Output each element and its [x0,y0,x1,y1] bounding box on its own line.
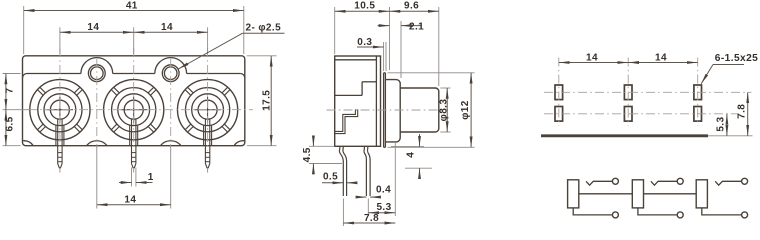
svg-text:4.5: 4.5 [302,147,313,162]
svg-text:0.4: 0.4 [376,185,391,196]
dimension 7 (top edge to hole center) [3,74,30,110]
jack J3: center cross [194,97,220,123]
RCA jack J1 front: concentric rings [30,80,90,140]
schematic jack 1: switch contact and tip terminal [586,178,618,185]
svg-text:5.3: 5.3 [716,117,727,132]
dimension 7.8 (pin 1 to flange face) [343,199,395,227]
svg-text:2.1: 2.1 [409,21,424,32]
jack J1: center cross [47,97,73,123]
dimension 14 (bottom, dome pitch) [97,147,171,209]
RCA jack J3 front: concentric rings [178,80,238,140]
svg-text:7: 7 [4,87,15,93]
svg-text:6-1.5x25: 6-1.5x25 [715,53,758,64]
schematic jack 2: ground terminal [638,208,683,218]
schematic: link wire jack1-jack2 [579,193,633,195]
pad row 2 col 3 [694,107,702,122]
schematic jack 2: body rectangle [632,180,643,208]
label 2-phi2.5 with leader to mounting hole [178,22,284,69]
dimension 0.3 (washer thickness) [357,37,386,71]
schematic jack 1: ground terminal [573,208,618,218]
dimension 10.5 (body depth) [335,0,390,70]
side view: spring washer [384,73,386,148]
schematic jack 3: ground terminal [702,208,748,218]
jack J3: 45-degree slots in outer ring [185,87,230,132]
PCB footprint: column centerlines [559,58,698,127]
svg-text:14: 14 [655,52,667,63]
svg-text:2- φ2.5: 2- φ2.5 [246,22,282,33]
dimension 14 (pad pitch right) [628,52,698,63]
dimension 4 (pin length) [391,134,432,178]
svg-text:14: 14 [586,52,598,63]
side view: internal step [335,82,377,96]
svg-text:14: 14 [124,195,136,206]
dimension 14 (jack pitch, right) [134,22,208,54]
PCB footprint: board edge reference line [541,134,708,137]
dimension 5.3 (pin 2 to flange face) [368,143,395,216]
pad row 1 col 1 [555,85,563,100]
svg-text:5.3: 5.3 [376,202,391,213]
dimension 14 (pad pitch left) [559,52,628,63]
svg-text:10.5: 10.5 [354,0,375,11]
svg-text:φ12: φ12 [460,100,471,120]
dimension phi8.3 (barrel dia) [438,88,450,132]
dimension 6.5 (hole center to jack center) [3,110,21,146]
svg-text:7.8: 7.8 [364,213,379,224]
pad row 2 col 1 [555,107,563,122]
side view: barrel phi8.3 [400,88,439,132]
dimension 14 (jack pitch, left) [60,22,134,54]
RCA jack J2 front: concentric rings [104,80,164,140]
jack J2: solder pin below body [132,146,136,173]
dimension 2.1 (flange width) [378,21,425,78]
dimension 17.5 (body height) [247,56,277,146]
svg-text:9.6: 9.6 [404,0,419,11]
front view: connector body outline [23,56,245,146]
dimension 0.5 (pin 1 thickness) [322,171,357,183]
dimension 9.6 (barrel length) [390,0,439,86]
front view: step ledge line with end fillets [23,74,245,79]
side view: horizontal centerline [327,109,449,111]
front view: vertical centerlines of jacks [60,48,208,151]
front view: vertical centerlines of holes [97,59,171,146]
schematic jack 3: body rectangle [696,180,707,208]
schematic: link wire jack2-jack3 [644,193,697,195]
jack J2: center cross [121,97,147,123]
front view: mounting hole bosses [81,58,187,74]
svg-text:17.5: 17.5 [261,90,272,111]
svg-text:1: 1 [148,172,154,183]
svg-text:4: 4 [405,152,416,158]
side view: bent pin 1 [339,146,346,196]
pad row 1 col 3 [694,85,702,100]
dimension 4.5 (pin bend) [302,136,342,175]
front view: mounting holes 2-phi2.5 [88,65,179,82]
schematic jack 3: switch contact and tip terminal [715,178,747,185]
jack J1: solder pin below body [58,146,62,173]
jack J2: 45-degree slots in outer ring [111,87,156,132]
schematic jack 2: switch contact and tip terminal [651,178,683,185]
svg-text:0.5: 0.5 [323,171,338,182]
pad row 1 col 2 [624,85,632,100]
jack J2: center pin inside body [130,119,138,146]
PCB footprint: row centerlines [544,92,752,114]
jack J3: solder pin below body [205,146,209,173]
svg-text:7.8: 7.8 [736,104,747,119]
schematic jack 1: body rectangle [568,180,579,208]
front view: horizontal centerline [28,109,253,111]
pad row 2 col 2 [624,107,632,122]
jack J3: center pin inside body [204,119,212,146]
dimension 0.4 (pin 2 thickness) [356,185,391,198]
svg-text:0.3: 0.3 [357,37,372,48]
side view: bent pin 2 [364,146,370,196]
svg-text:41: 41 [126,0,138,11]
label 6-1.5x25 with leader to pad [701,53,758,84]
side view: body outline [335,56,381,146]
dimension 41 (overall width) [24,0,244,54]
svg-text:14: 14 [87,22,99,33]
dimension phi12 (flange dia) [388,73,475,148]
side view: internal contact spring [335,110,358,134]
svg-text:6.5: 6.5 [4,116,15,131]
dimension 1 (pin width) [119,168,154,187]
svg-text:φ8.3: φ8.3 [438,99,449,122]
front view: bottom edge domes [23,141,244,146]
dimension 5.3 (row 2 to board edge) [716,114,727,136]
side view: flange phi12 [385,80,400,142]
jack J1: 45-degree slots in outer ring [37,87,82,132]
svg-text:14: 14 [161,22,173,33]
dimension 7.8 (row 1 to board edge) [736,92,747,136]
jack J1: center pin inside body [56,119,64,146]
